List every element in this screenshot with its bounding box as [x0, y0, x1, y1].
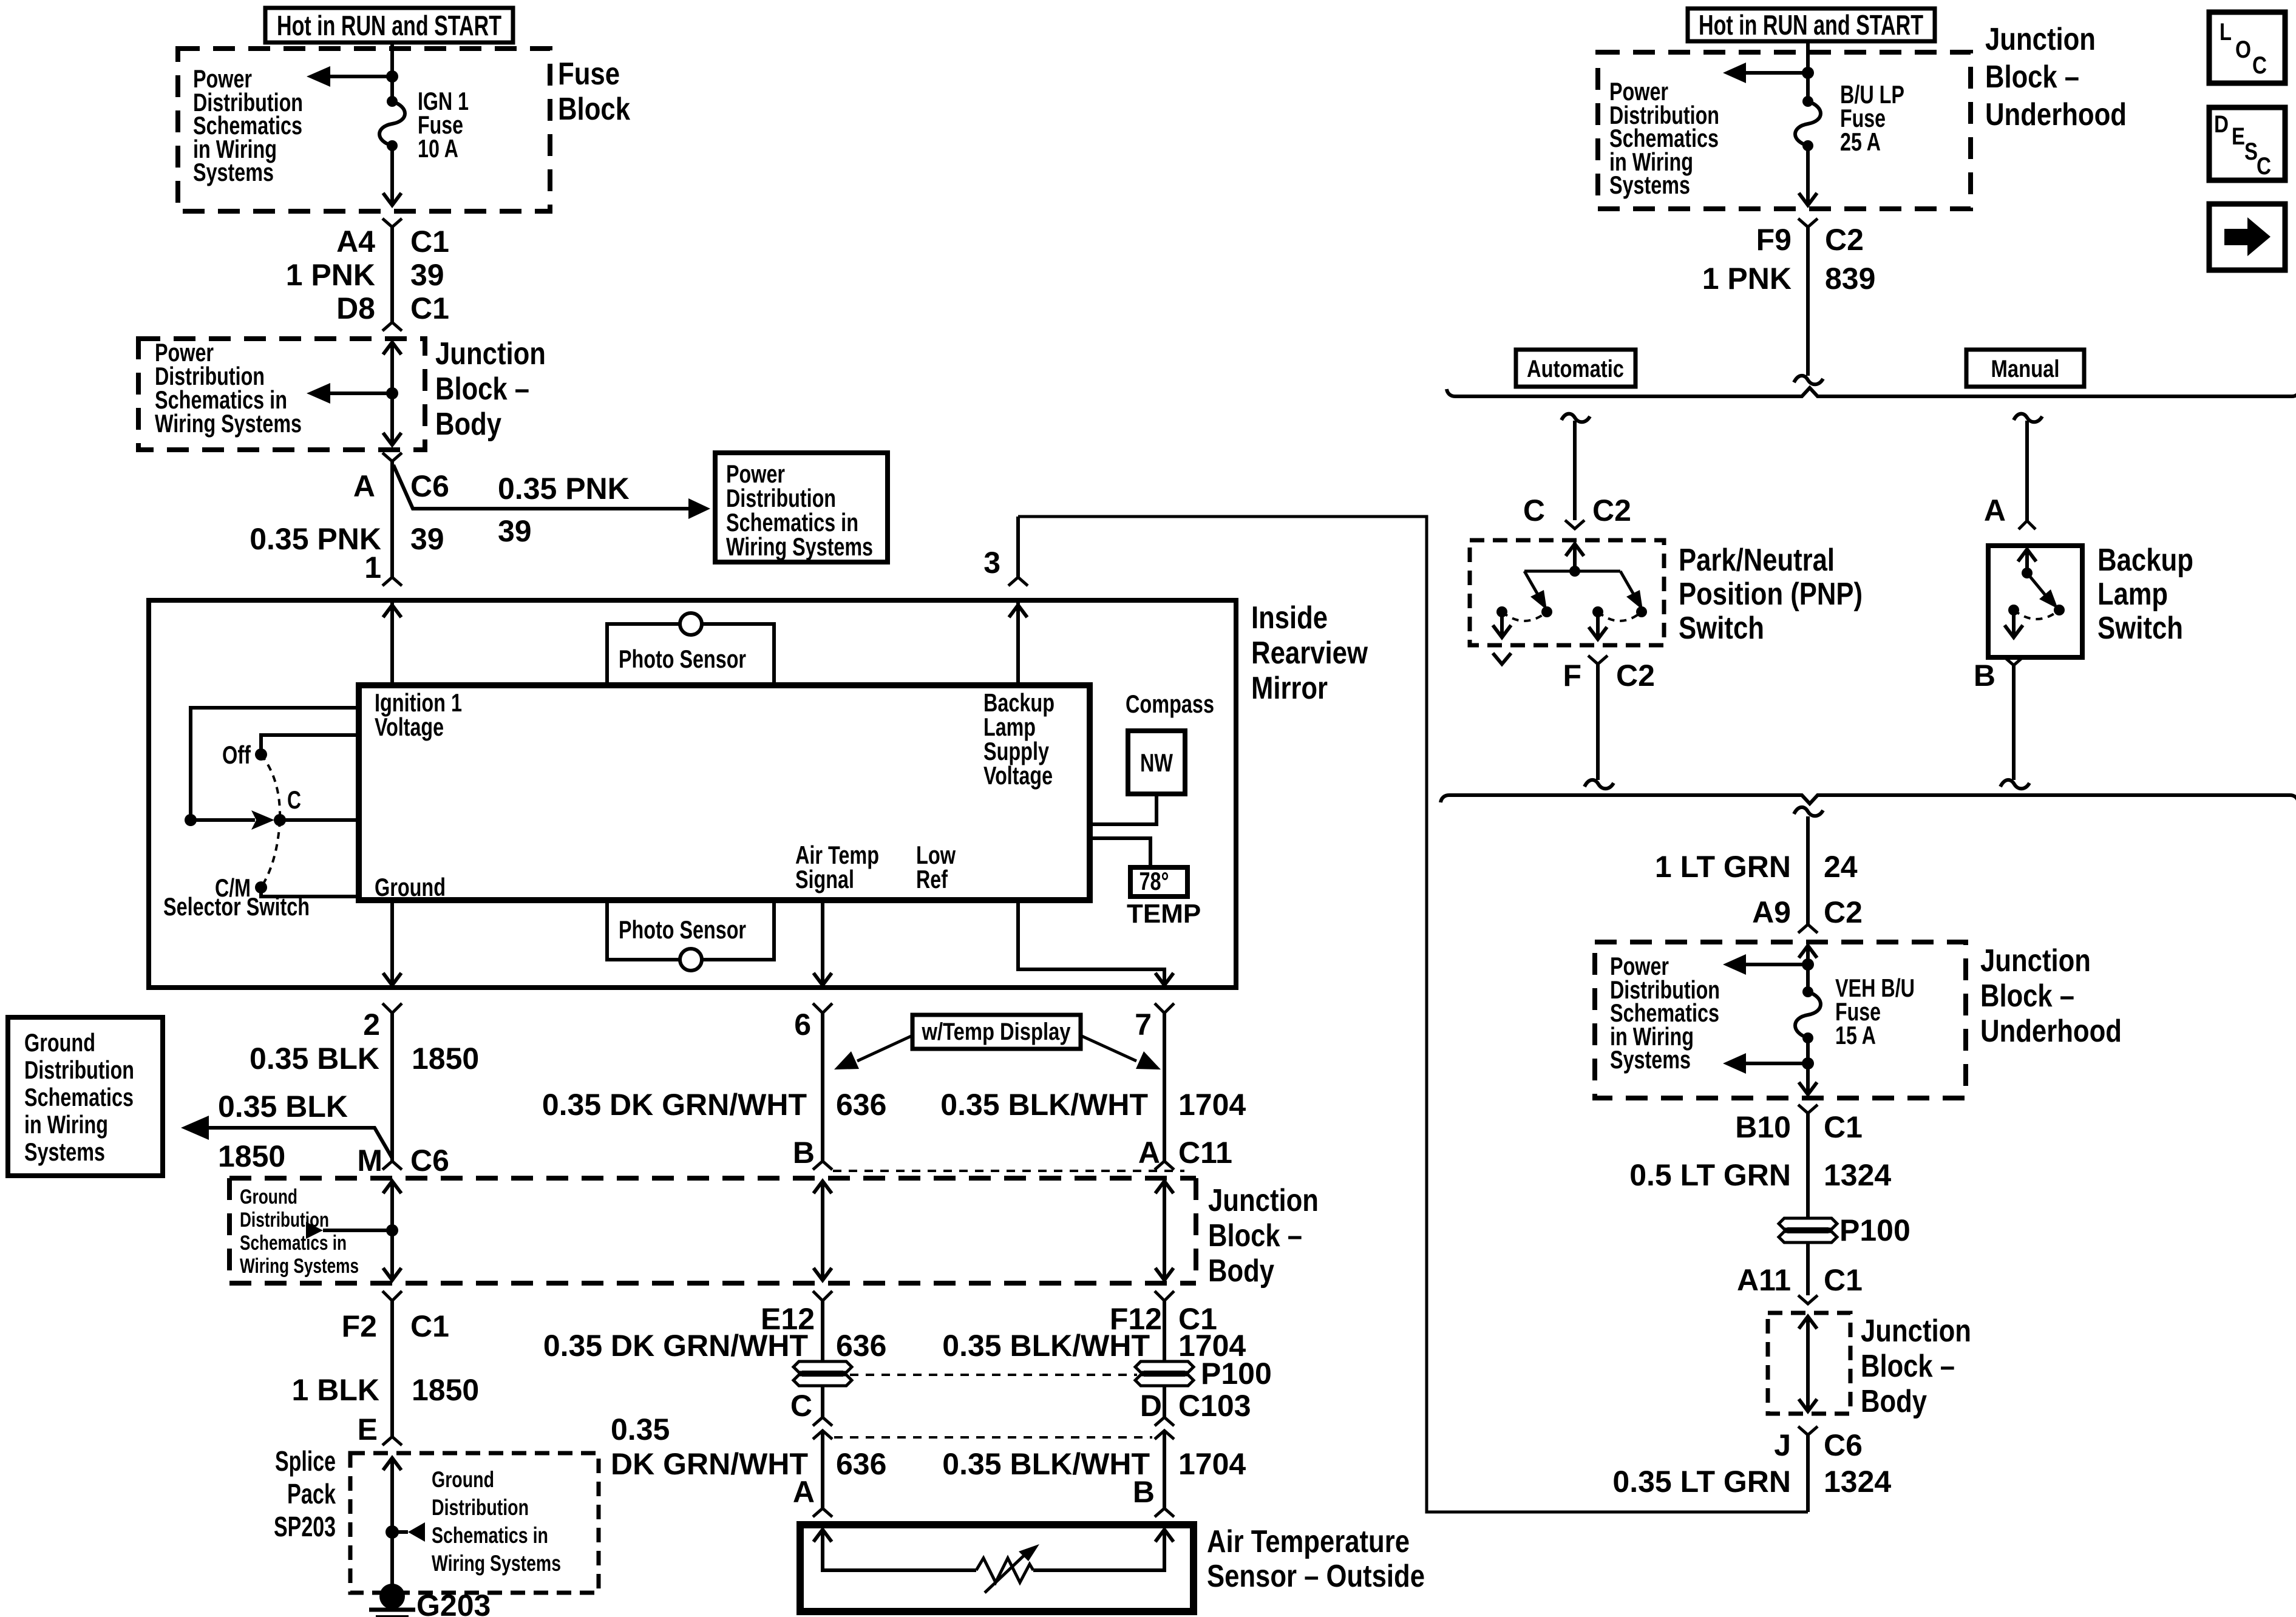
junction dot (ground splice in junction block) [386, 1224, 398, 1236]
svg-text:C: C [2257, 153, 2271, 180]
label pin 6 [794, 1008, 811, 1042]
svg-text:P100: P100 [1839, 1213, 1911, 1247]
component: photo sensor (upper) [607, 613, 774, 684]
svg-text:A: A [1984, 493, 2006, 527]
svg-text:Ground: Ground [375, 873, 446, 901]
value label: 0.35 BLK/WHT / 1704 [940, 1088, 1246, 1122]
svg-text:1 LT GRN: 1 LT GRN [1655, 850, 1791, 884]
svg-text:J: J [1774, 1428, 1791, 1462]
wire: arrow from ground distribution schematics (inside junction block) [240, 1185, 392, 1278]
svg-text:Voltage: Voltage [983, 761, 1053, 790]
svg-text:Junction: Junction [1980, 943, 2091, 978]
label pins A9/C2 [1752, 895, 1863, 929]
svg-text:0.35 BLK: 0.35 BLK [218, 1090, 348, 1124]
svg-text:P100: P100 [1201, 1357, 1272, 1391]
component: air temperature sensor - outside [800, 1524, 1425, 1612]
wire: 1 PNK 39 circuit (fuse block to junction block body) [390, 227, 394, 322]
label pins F/C2 [1563, 659, 1654, 693]
svg-text:1704: 1704 [1178, 1088, 1246, 1122]
wire: PNP common entry arrow [1566, 544, 1584, 571]
svg-text:Off: Off [222, 741, 251, 769]
connector C1 pin A4 (out of fuse block) [382, 219, 402, 227]
wire: 0.35 LT GRN 1324 down to routing corner [1806, 1435, 1810, 1512]
wire: pin 1 entry arrow inside mirror [383, 600, 401, 684]
svg-text:1324: 1324 [1824, 1158, 1891, 1192]
svg-text:Underhood: Underhood [1980, 1014, 2122, 1049]
svg-text:24: 24 [1824, 850, 1858, 884]
wire: sensor pin A entry arrow [813, 1530, 976, 1570]
connector C103 pin C (double chevron) [813, 1417, 832, 1439]
label pin 1 [364, 551, 381, 585]
wire: 1 BLK 1850 (F2 to splice pack) [390, 1301, 394, 1437]
label pins C/C2 (PNP input) [1523, 493, 1631, 527]
svg-text:A9: A9 [1752, 895, 1791, 929]
svg-text:Block –: Block – [1985, 59, 2079, 95]
value label: 1 PNK / 39 [286, 258, 444, 292]
wire: BLS common entry arrow [2018, 549, 2036, 573]
wire: arrow to power distribution schematics (junction block body) [155, 338, 392, 438]
svg-text:Sensor – Outside: Sensor – Outside [1207, 1559, 1425, 1594]
svg-text:Junction: Junction [1985, 22, 2096, 57]
label pins F2/C1 [342, 1309, 449, 1343]
svg-text:Inside: Inside [1251, 600, 1328, 636]
label pins J/C6 [1774, 1428, 1863, 1462]
svg-text:C103: C103 [1178, 1389, 1251, 1423]
svg-text:E: E [2232, 123, 2245, 150]
wire: PNP unused contact stub [1493, 612, 1511, 664]
component: backup lamp switch [1988, 543, 2193, 657]
resistor: variable thermistor element [976, 1544, 1039, 1593]
junction block - body (small right) dashed enclosure [1768, 1313, 1971, 1419]
connector C1 pin F2 [382, 1291, 402, 1301]
svg-text:L: L [2220, 19, 2232, 46]
component: compass display NW [1126, 690, 1214, 794]
wire: fuse output exit arrow [1799, 1038, 1817, 1094]
svg-text:0.35 PNK: 0.35 PNK [498, 472, 630, 506]
svg-text:B: B [1974, 659, 1995, 693]
svg-text:F2: F2 [342, 1309, 377, 1343]
label pins E12 / F12 / C1 [761, 1302, 1217, 1336]
node: Hot in RUN and START (left feed label box) [265, 8, 513, 42]
svg-text:Voltage: Voltage [375, 713, 444, 741]
svg-text:Switch: Switch [1679, 611, 1764, 646]
svg-text:Ground: Ground [432, 1467, 494, 1492]
svg-text:0.35 BLK/WHT: 0.35 BLK/WHT [942, 1329, 1150, 1363]
svg-text:C1: C1 [410, 1309, 449, 1343]
label sensor pin B [1133, 1475, 1155, 1509]
value label: 1 LT GRN / 24 [1655, 850, 1858, 884]
wire: backup lamp supply routing (right circuit to mirror pin 3) [1018, 517, 1808, 1512]
label sensor pin A [793, 1475, 815, 1509]
connector boundary C11 (thin dashed) [833, 1170, 1184, 1172]
svg-text:E: E [358, 1412, 378, 1446]
svg-text:Body: Body [1208, 1253, 1274, 1289]
junction block - underhood (lower right) dashed enclosure [1595, 942, 2122, 1098]
wire: C103 to air temp sensor pin B [1163, 1432, 1166, 1508]
svg-text:in Wiring: in Wiring [24, 1110, 108, 1139]
wire: fuse output with down arrow (right) [1799, 146, 1817, 205]
label pins A4/C1 [336, 225, 449, 259]
label pin B (backup lamp switch) [1974, 659, 1995, 693]
wire: 0.5 LT GRN 1324 to P100 [1806, 1113, 1810, 1218]
wire: pin M entry arrow inside junction block [383, 1181, 401, 1230]
svg-text:636: 636 [836, 1329, 886, 1363]
node: power distribution schematics reference box (center) [715, 453, 888, 562]
svg-text:Hot in RUN and START: Hot in RUN and START [1699, 9, 1923, 41]
svg-text:Photo Sensor: Photo Sensor [619, 645, 746, 673]
junction block - body (left power) dashed enclosure [138, 336, 546, 450]
label pins A11/C1 [1737, 1263, 1863, 1297]
svg-text:1: 1 [364, 551, 381, 585]
connector C2 pin C [1565, 520, 1584, 529]
svg-text:1 PNK: 1 PNK [1702, 262, 1792, 296]
svg-text:Ground: Ground [240, 1185, 297, 1209]
value label: 0.35 DK GRN/WHT / 636 (below junction block) [543, 1329, 887, 1363]
svg-text:0.35 BLK/WHT: 0.35 BLK/WHT [942, 1447, 1150, 1481]
svg-text:Body: Body [435, 407, 501, 442]
wire: compass to internal unit [1090, 794, 1156, 824]
svg-text:Systems: Systems [1609, 171, 1690, 199]
connector: BLS pin A [2019, 521, 2036, 529]
wire: 0.35 PNK 39 down to mirror pin 1 [390, 461, 394, 577]
wire: merged backup lamp feed below bus [1794, 807, 1823, 924]
wire: entry arrow inside splice pack [383, 1458, 401, 1596]
wire: P100 to C103 (pin 7) [1163, 1386, 1166, 1417]
svg-text:1704: 1704 [1178, 1447, 1246, 1481]
wire: internal unit to temp display [1090, 838, 1150, 867]
svg-text:Systems: Systems [24, 1137, 105, 1166]
connector: sensor pin A [813, 1508, 832, 1517]
junction dot: PNP common [1569, 566, 1580, 577]
svg-text:C1: C1 [410, 225, 449, 259]
svg-text:B: B [1133, 1475, 1155, 1509]
svg-text:1850: 1850 [218, 1139, 285, 1173]
connector: mirror pin 1 [382, 577, 402, 586]
component: selector switch [163, 708, 359, 921]
svg-text:C1: C1 [1824, 1110, 1863, 1144]
svg-text:39: 39 [410, 522, 444, 556]
label pin 3 [983, 546, 1000, 580]
svg-text:Junction: Junction [435, 336, 546, 371]
svg-text:C: C [2252, 52, 2267, 79]
wire: P100 to A11 [1806, 1242, 1810, 1295]
wire: 0.35 BLK 1850 branch to ground distribution schematics [181, 1090, 392, 1173]
component: mirror internal unit box [359, 685, 1090, 901]
svg-text:Splice: Splice [275, 1445, 336, 1477]
wire: backup lamp supply feed (pin 3 stub) [1016, 517, 1020, 577]
svg-text:Block –: Block – [1861, 1349, 1955, 1384]
node: w/Temp Display option tag [834, 1015, 1161, 1070]
connector C1 pin E12 [813, 1291, 832, 1301]
svg-text:Lamp: Lamp [2097, 577, 2168, 612]
svg-text:A4: A4 [336, 225, 375, 259]
svg-text:Wiring Systems: Wiring Systems [726, 532, 873, 561]
wire: pin A9 entry arrow inside junction block underhood [1799, 946, 1817, 992]
label pins A/C6 [353, 469, 449, 503]
fuse F1: IGN 1 Fuse 10 A [379, 87, 469, 163]
wire: pass-through inside junction block body [1799, 1317, 1817, 1411]
svg-text:Wiring Systems: Wiring Systems [240, 1255, 359, 1278]
svg-text:Selector Switch: Selector Switch [163, 892, 310, 921]
connector: mirror pin 2 [382, 1003, 402, 1013]
svg-text:Automatic: Automatic [1527, 356, 1624, 382]
svg-text:Schematics in: Schematics in [240, 1232, 347, 1255]
connector P100 (pin 7 column pass-through) [1135, 1361, 1194, 1386]
svg-text:839: 839 [1825, 262, 1875, 296]
wire: F12 to P100 [1163, 1301, 1166, 1361]
junction block - body (ground) dashed enclosure [229, 1178, 1319, 1289]
svg-text:Ref: Ref [916, 865, 948, 893]
junction dot in fuse block feed [386, 70, 398, 83]
svg-text:Systems: Systems [1610, 1045, 1691, 1074]
svg-text:Backup: Backup [2097, 543, 2193, 578]
value label: 0.35 BLK/WHT / 1704 (below junction block) [942, 1329, 1246, 1363]
label pins F9/C2 [1756, 223, 1864, 257]
value label: 0.35 LT GRN / 1324 [1612, 1465, 1891, 1499]
svg-text:D8: D8 [336, 291, 375, 325]
wire: pin A path inside junction block [1155, 1181, 1173, 1280]
svg-text:C6: C6 [1824, 1428, 1863, 1462]
svg-text:Photo Sensor: Photo Sensor [619, 915, 746, 944]
svg-text:39: 39 [498, 514, 532, 548]
connector C2 pin F9 [1798, 219, 1818, 227]
svg-text:Distribution: Distribution [240, 1209, 329, 1232]
wire: exit arrow inside junction block body [383, 393, 401, 445]
svg-text:78°: 78° [1140, 867, 1169, 895]
fuse block (left) dashed enclosure [178, 49, 630, 211]
connector: BLS pin B [2004, 657, 2023, 665]
node: Hot in RUN and START (right feed label box) [1688, 8, 1935, 41]
svg-text:A: A [1138, 1136, 1160, 1170]
svg-text:C2: C2 [1824, 895, 1863, 929]
svg-text:A: A [793, 1475, 815, 1509]
wire: ground exit arrow inside junction block [383, 1230, 401, 1280]
connector P100 (right column pass-through) [1779, 1213, 1911, 1247]
svg-text:Mirror: Mirror [1251, 671, 1328, 706]
svg-text:1850: 1850 [412, 1042, 479, 1076]
wire: pin 3 entry arrow inside mirror [1009, 600, 1027, 684]
wire: 0.35 DK GRN/WHT 636 (pin 6 to junction block) [821, 1013, 824, 1161]
svg-text:C6: C6 [410, 469, 449, 503]
label pin E [358, 1412, 378, 1446]
component: Inside Rearview Mirror outer box [149, 600, 1368, 988]
node: DESC reference box [2209, 107, 2285, 180]
connector boundary C103 (thin dashed) [834, 1436, 1152, 1439]
svg-text:Air Temperature: Air Temperature [1207, 1524, 1410, 1559]
svg-text:636: 636 [836, 1447, 886, 1481]
wire: 0.35 BLK/WHT 1704 (pin 7 to junction block) [1163, 1013, 1166, 1161]
svg-text:7: 7 [1135, 1008, 1152, 1042]
svg-text:C: C [287, 785, 301, 814]
svg-text:TEMP: TEMP [1127, 899, 1201, 929]
svg-text:0.35 LT GRN: 0.35 LT GRN [1612, 1465, 1791, 1499]
svg-text:Block: Block [558, 92, 630, 127]
ground G203 [369, 1584, 491, 1617]
svg-text:Wiring Systems: Wiring Systems [155, 409, 302, 438]
connector C6 pin M [382, 1161, 402, 1170]
wire: BLS pin B stub to bus [2000, 665, 2029, 788]
svg-text:0.5 LT GRN: 0.5 LT GRN [1629, 1158, 1791, 1192]
connector C11 pin A [1155, 1161, 1174, 1170]
connector P100 (pin 6 column pass-through) [793, 1361, 852, 1386]
connector: sensor pin B [1155, 1508, 1174, 1517]
svg-text:C2: C2 [1616, 659, 1655, 693]
label pin A (backup lamp switch) [1984, 493, 2006, 527]
svg-text:Ground: Ground [24, 1028, 95, 1057]
svg-text:C1: C1 [1824, 1263, 1863, 1297]
svg-text:Switch: Switch [2097, 611, 2183, 646]
node: LOC reference box [2209, 12, 2285, 83]
svg-text:M: M [357, 1144, 382, 1178]
svg-text:636: 636 [836, 1088, 886, 1122]
label pins M/C6 [357, 1144, 449, 1178]
component: temp display 78 deg [1127, 867, 1201, 929]
svg-text:w/Temp Display: w/Temp Display [922, 1019, 1071, 1045]
wire: entry arrow inside junction block body [383, 342, 401, 393]
wire: PNP contact arms [1524, 571, 1643, 610]
label: P100 [1201, 1357, 1272, 1391]
label pins B10/C1 [1735, 1110, 1863, 1144]
node: option bus (top) with break [1447, 388, 2296, 396]
wire: arrow to power distribution schematics (left fuse block) [193, 64, 392, 186]
connector C1 pin B10 [1798, 1105, 1818, 1113]
value label: 0.5 LT GRN / 1324 [1629, 1158, 1891, 1192]
wire: arrow to ground distribution schematics (splice pack) [392, 1467, 561, 1576]
svg-text:Compass: Compass [1126, 690, 1214, 718]
svg-text:C: C [1523, 493, 1545, 527]
value label: 0.35 BLK / 1850 [250, 1042, 479, 1076]
svg-text:Systems: Systems [193, 158, 274, 186]
svg-text:0.35 DK GRN/WHT: 0.35 DK GRN/WHT [542, 1088, 807, 1122]
connector C1 pin D8 (into junction block body) [382, 322, 402, 331]
svg-text:15 A: 15 A [1835, 1021, 1876, 1049]
label pins B / A / C11 [793, 1136, 1232, 1170]
svg-text:Block –: Block – [1208, 1218, 1302, 1253]
connector C1 pin F12 [1155, 1291, 1174, 1301]
wire: 1 PNK 839 down to option split [1794, 227, 1823, 384]
svg-text:C2: C2 [1825, 223, 1864, 257]
wire: C103 to air temp sensor pin A [821, 1432, 824, 1508]
svg-text:B: B [793, 1136, 815, 1170]
junction dot inside splice pack [385, 1525, 399, 1539]
value label: 1 PNK / 839 [1702, 262, 1876, 296]
svg-text:Junction: Junction [1861, 1314, 1971, 1349]
svg-text:Distribution: Distribution [432, 1495, 529, 1520]
svg-text:D: D [2214, 111, 2229, 138]
connector: mirror pin 6 [813, 1003, 832, 1013]
connector boundary P100 (thin dashed) [850, 1374, 1137, 1376]
wire: fuse output with down arrow [383, 146, 401, 205]
wire: E12 to P100 [821, 1301, 824, 1361]
svg-text:Pack: Pack [287, 1478, 336, 1510]
node: option bus (bottom) with break [1441, 795, 2296, 804]
svg-text:S: S [2244, 138, 2258, 165]
svg-text:Schematics: Schematics [24, 1083, 134, 1111]
svg-text:1 BLK: 1 BLK [292, 1373, 379, 1407]
wire: 0.35 PNK 39 branch to power distribution schematics box [393, 465, 710, 548]
value label: 0.35 DK GRN/WHT / 636 [542, 1088, 887, 1122]
wire: hot feed into junction block underhood [1806, 41, 1810, 101]
node: forward arrow reference box [2209, 204, 2285, 270]
node: BLS contacts [2008, 605, 2065, 619]
svg-text:Distribution: Distribution [24, 1056, 134, 1084]
connector C6 pin J [1798, 1426, 1818, 1435]
svg-text:A: A [353, 469, 375, 503]
connector C11 pin B [813, 1161, 832, 1170]
svg-text:3: 3 [983, 546, 1000, 580]
svg-text:F9: F9 [1756, 223, 1792, 257]
svg-text:1324: 1324 [1824, 1465, 1891, 1499]
svg-text:C: C [790, 1389, 812, 1423]
node: ground distribution schematics reference box (far left) [8, 1017, 163, 1176]
svg-text:Wiring Systems: Wiring Systems [432, 1551, 561, 1576]
connector C2 pin F [1588, 656, 1608, 664]
svg-text:Underhood: Underhood [1985, 97, 2127, 132]
connector: splice pack pin E [382, 1437, 402, 1445]
svg-text:C6: C6 [410, 1144, 449, 1178]
wire: ground lead inside mirror (pin 2) [383, 900, 401, 988]
svg-text:G203: G203 [416, 1588, 491, 1617]
junction block - underhood (top right) dashed enclosure [1598, 22, 2127, 209]
svg-text:Park/Neutral: Park/Neutral [1679, 543, 1835, 578]
wire: arrow to power distribution schematics (underhood upper) [1610, 952, 1808, 1074]
svg-text:Fuse: Fuse [558, 56, 620, 92]
label pin 2 [363, 1008, 380, 1042]
fuse F3: VEH B/U Fuse 15 A [1795, 974, 1915, 1049]
junction dot (underhood fuse output) [1802, 1057, 1814, 1070]
wire: PNP output to pin F [1589, 612, 1607, 639]
svg-text:F: F [1563, 659, 1581, 693]
svg-text:Hot in RUN and START: Hot in RUN and START [277, 10, 501, 41]
svg-text:0.35: 0.35 [611, 1412, 670, 1446]
value label: 0.35 / DK GRN/WHT / 636 [611, 1412, 886, 1481]
svg-text:C11: C11 [1178, 1136, 1232, 1170]
connector C1 pin A11 [1798, 1295, 1818, 1304]
wire: air temp signal lead inside mirror (pin 6) [813, 900, 832, 988]
wire: arrow to power distribution schematics (underhood lower) [1723, 1053, 1808, 1074]
svg-text:C1: C1 [410, 291, 449, 325]
svg-text:0.35 BLK: 0.35 BLK [250, 1042, 379, 1076]
svg-text:DK GRN/WHT: DK GRN/WHT [611, 1447, 808, 1481]
svg-text:Signal: Signal [795, 865, 854, 893]
svg-text:1 PNK: 1 PNK [286, 258, 375, 292]
svg-text:0.35 BLK/WHT: 0.35 BLK/WHT [940, 1088, 1148, 1122]
node: PNP contacts [1496, 606, 1647, 621]
svg-text:Schematics in: Schematics in [432, 1523, 548, 1548]
svg-text:Rearview: Rearview [1251, 636, 1368, 671]
component: park/neutral position (PNP) switch [1470, 540, 1863, 646]
junction dot: BLS common [2022, 568, 2033, 578]
svg-text:C2: C2 [1592, 493, 1631, 527]
svg-text:25 A: 25 A [1840, 127, 1881, 156]
svg-text:39: 39 [410, 258, 444, 292]
wire: BLS output to pin B [2005, 610, 2023, 637]
wire: arrow to power distribution schematics (top right) [1609, 63, 1808, 199]
svg-text:Position (PNP): Position (PNP) [1679, 577, 1863, 612]
svg-text:A11: A11 [1737, 1263, 1791, 1297]
svg-text:O: O [2235, 36, 2251, 63]
fuse F2: B/U LP Fuse 25 A [1795, 80, 1904, 156]
wire: BLS switch arm [2027, 573, 2058, 609]
label pin 7 [1135, 1008, 1152, 1042]
value label: 1 BLK / 1850 [292, 1373, 480, 1407]
wire: automatic branch stub [1561, 414, 1590, 520]
svg-text:B10: B10 [1735, 1110, 1791, 1144]
svg-text:Manual: Manual [1991, 356, 2060, 382]
connector C103 pin D (double chevron) [1155, 1417, 1174, 1439]
wire: pin B path inside junction block [813, 1181, 832, 1280]
wire: low ref lead inside mirror (pin 7) [1018, 900, 1173, 988]
